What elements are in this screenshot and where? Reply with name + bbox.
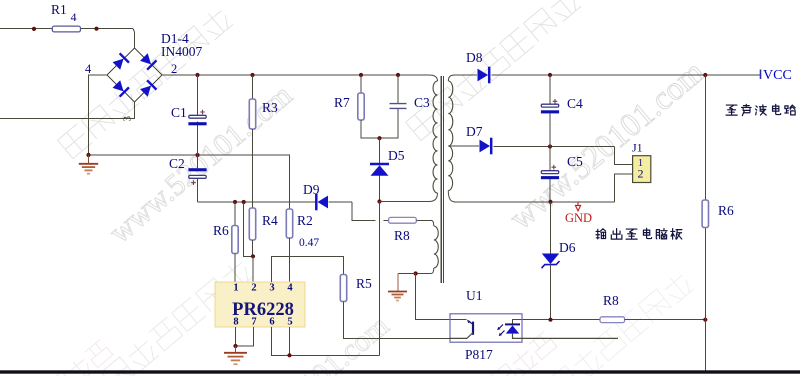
wire aux to ground stub <box>398 273 416 275</box>
wire drain riser <box>379 202 381 356</box>
watermark cn bottom-left <box>78 258 254 376</box>
resistor R8 left <box>389 217 417 223</box>
svg-text:R1: R1 <box>51 2 67 17</box>
svg-text:2: 2 <box>251 283 256 294</box>
watermark cn top-left <box>58 6 234 159</box>
svg-text:4: 4 <box>71 10 77 24</box>
svg-text:R2: R2 <box>297 213 313 228</box>
wire U1 LED cathode to node <box>513 320 601 325</box>
diode D8 <box>454 74 477 76</box>
watermark www right <box>503 54 712 237</box>
node dot R4 bottom pin2 <box>251 254 255 258</box>
diode D4 bridge bottom-right <box>139 80 156 97</box>
node dots mid rail <box>233 200 237 204</box>
svg-text:0.47: 0.47 <box>299 237 319 249</box>
svg-text:1: 1 <box>233 283 238 294</box>
wire pin2 lead <box>252 256 254 282</box>
node dots VCC rail <box>548 73 552 77</box>
svg-text:C4: C4 <box>567 96 583 111</box>
svg-text:2: 2 <box>638 167 644 181</box>
node dot C1-C2 mid <box>195 153 199 157</box>
svg-text:4: 4 <box>287 283 293 294</box>
power port GND marker <box>575 202 580 211</box>
wire secondary bottom out <box>454 201 615 203</box>
svg-text:P817: P817 <box>465 347 493 362</box>
wire R8 to aux top <box>416 219 431 221</box>
svg-text:VCC: VCC <box>763 68 792 83</box>
svg-text:PR6228: PR6228 <box>232 300 294 320</box>
svg-text:5: 5 <box>287 317 292 328</box>
svg-text:D6: D6 <box>559 240 576 255</box>
svg-text:R8: R8 <box>603 293 619 308</box>
svg-text:GND: GND <box>565 211 592 225</box>
resistor R8 right <box>600 317 625 323</box>
svg-text:D8: D8 <box>466 50 483 65</box>
watermark cn mid-right <box>406 0 582 141</box>
wire bridge left vertex to ground rail <box>89 75 108 155</box>
resistor R3 <box>252 75 254 99</box>
wire top rail from bridge to transformer <box>162 74 430 76</box>
capacitor C2 <box>197 155 199 168</box>
svg-text:8: 8 <box>233 317 238 328</box>
transformer core <box>440 76 442 283</box>
LED of U1 <box>505 323 520 325</box>
wire D9 to R8 <box>352 202 376 220</box>
wire J1 pin1 feed <box>615 147 633 165</box>
svg-text:C1: C1 <box>171 105 187 120</box>
phototransistor U1 <box>472 322 474 335</box>
node dot secondary ground <box>548 200 552 204</box>
svg-text:R7: R7 <box>334 95 350 110</box>
svg-text:2: 2 <box>171 62 177 76</box>
watermark www bottom <box>206 309 396 376</box>
svg-text:U1: U1 <box>466 288 483 303</box>
connector J1 box <box>633 156 651 183</box>
power port VCC <box>760 70 762 80</box>
diode D5 zener <box>379 138 381 163</box>
diode D1 bridge top-left <box>112 53 129 70</box>
resistor R1 <box>52 26 80 32</box>
transformer secondary winding <box>448 75 454 81</box>
resistor R6 right <box>702 200 708 228</box>
svg-text:R6: R6 <box>718 203 734 218</box>
svg-text:3: 3 <box>122 116 134 122</box>
capacitor C1 <box>197 75 199 116</box>
wire right rail <box>704 75 706 200</box>
watermark cn bottom-right <box>525 270 694 376</box>
wire pins 8-7 to ground <box>235 327 237 346</box>
svg-text:www.520101.com: www.520101.com <box>503 54 712 237</box>
wire R3 bottom to R4 top <box>252 129 254 208</box>
wire mid rail C2 to D9 <box>198 201 316 203</box>
wire J1 pin2 feed <box>615 174 633 202</box>
svg-text:IN4007: IN4007 <box>161 44 202 59</box>
svg-text:D5: D5 <box>388 148 405 163</box>
ground symbol aux <box>397 274 399 292</box>
svg-text:D9: D9 <box>303 182 320 197</box>
transformer aux winding <box>431 220 434 226</box>
svg-text:D7: D7 <box>466 124 483 139</box>
label pin 3 bridge <box>122 116 134 122</box>
wire bridge diamond <box>107 48 162 102</box>
svg-text:7: 7 <box>251 317 256 328</box>
diode D3 bridge bottom-left <box>112 79 129 96</box>
diode D2 bridge top-right <box>139 52 156 69</box>
wire ground rail <box>89 155 290 209</box>
resistor R4 <box>249 208 255 240</box>
transformer primary winding <box>429 75 438 81</box>
node dot aux <box>414 271 418 275</box>
ground symbol PR6228 <box>235 346 237 352</box>
svg-text:6: 6 <box>269 317 274 328</box>
node dot ground-left <box>86 153 90 157</box>
diode D9 <box>318 196 329 209</box>
node dot D6-U1 <box>548 318 552 322</box>
diode D7 <box>450 145 480 147</box>
capacitor C4 <box>549 75 551 104</box>
node dot R8-rail <box>703 318 707 322</box>
svg-text:R6: R6 <box>213 223 229 238</box>
svg-text:J1: J1 <box>632 141 643 155</box>
resistor R6 left <box>234 202 236 226</box>
wire AC input line 1 <box>0 28 133 30</box>
node dot drain <box>377 199 381 203</box>
node dot D7 line <box>548 144 552 148</box>
page divider bar <box>0 370 800 373</box>
node junction dots AC line <box>32 27 36 31</box>
wire aux node to U1 <box>416 274 467 320</box>
svg-text:C5: C5 <box>567 154 583 169</box>
node dots on top rail <box>195 73 199 77</box>
node dot pin8 ground <box>233 344 237 348</box>
svg-text:C3: C3 <box>414 95 430 110</box>
watermark pink bottom <box>27 331 557 376</box>
svg-text:R5: R5 <box>356 276 372 291</box>
wire AC input line 2 <box>0 102 135 119</box>
label chinese to-sound-circuit <box>726 105 737 115</box>
capacitor C3 <box>397 75 399 103</box>
ground symbol left <box>88 155 90 163</box>
svg-text:R8: R8 <box>394 228 410 243</box>
watermark www left <box>102 77 298 250</box>
diode D6 zener <box>550 202 552 254</box>
node dot pin5-6 <box>287 353 291 357</box>
resistor R7 <box>360 75 362 93</box>
capacitor C5 <box>549 147 551 172</box>
resistor R5 <box>340 275 346 302</box>
wire snubber bottom <box>361 109 398 138</box>
svg-text:4: 4 <box>85 62 92 76</box>
optocoupler U1 box <box>450 314 522 342</box>
wire jog to R4 bottom <box>244 202 253 256</box>
resistor R2 <box>289 208 291 210</box>
svg-text:3: 3 <box>269 283 274 294</box>
wire drain to primary bottom <box>380 201 430 203</box>
wire pins 6-5 to drain riser <box>272 327 380 355</box>
wire pin3 to R5 top <box>272 256 344 282</box>
IC PR6228 box <box>215 282 305 327</box>
svg-text:C2: C2 <box>169 156 185 171</box>
node dot snubber <box>377 136 381 140</box>
svg-text:R4: R4 <box>262 213 278 228</box>
label chinese output-to-computer-board <box>596 229 606 239</box>
svg-text:R3: R3 <box>262 100 278 115</box>
